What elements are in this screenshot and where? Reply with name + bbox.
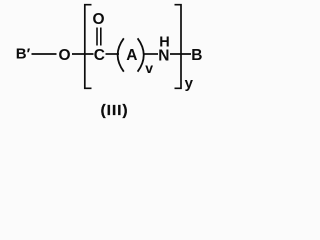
svg-text:O: O [59,47,71,64]
svg-text:B′: B′ [16,46,31,63]
svg-text:(III): (III) [101,102,129,119]
right parenthesis of (A)v [138,38,144,71]
bond O-C [72,53,94,55]
bond N-B (crosses right bracket) [170,53,191,55]
bond B'-O [32,53,57,55]
left parenthesis of (A)v [118,38,124,71]
double bond C=O [96,28,98,46]
bond (A)-N [143,53,158,55]
left bracket [85,5,92,89]
bond C-( [106,53,120,55]
svg-text:A: A [126,47,137,64]
svg-text:v: v [145,60,153,76]
svg-text:O: O [93,11,105,28]
svg-text:B: B [191,47,202,64]
svg-text:N: N [158,47,169,64]
right bracket [175,5,182,89]
svg-text:C: C [94,47,105,64]
svg-text:y: y [185,75,194,92]
